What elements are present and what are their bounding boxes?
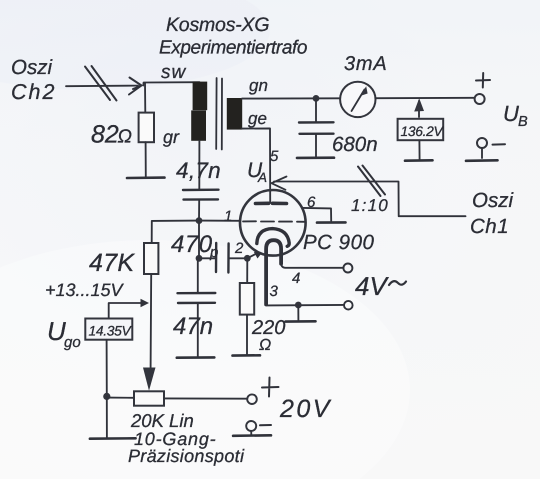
transformer primary winding bbox=[193, 82, 208, 111]
ground under 47n bbox=[177, 356, 215, 359]
svg-text:680n: 680n bbox=[332, 133, 378, 156]
potentiometer 20k bbox=[134, 391, 164, 405]
junction node heater ground bbox=[295, 302, 302, 309]
svg-text:47n: 47n bbox=[173, 313, 213, 340]
wire grid pin1 bbox=[199, 220, 240, 222]
voltmeter box 136.2V bbox=[398, 119, 444, 140]
wire junction to ground bbox=[106, 396, 108, 438]
ground under 680n bbox=[297, 156, 334, 159]
svg-text:gn: gn bbox=[249, 76, 268, 95]
probe slash Ch2 bbox=[85, 66, 117, 101]
ground under 220 bbox=[233, 354, 261, 357]
ground heater bbox=[286, 320, 316, 323]
svg-text:2: 2 bbox=[234, 240, 244, 257]
wire pin3 to terminal bbox=[267, 304, 344, 307]
svg-text:220: 220 bbox=[251, 317, 285, 339]
capacitor 680n bbox=[315, 98, 317, 122]
ground under 136.2V bbox=[405, 159, 433, 162]
wire ge tap to anode lead bbox=[242, 128, 270, 203]
junction node at 680n bbox=[313, 95, 320, 102]
svg-text:Experimentiertrafo: Experimentiertrafo bbox=[159, 38, 307, 59]
svg-text:PC 900: PC 900 bbox=[303, 231, 374, 254]
svg-text:B: B bbox=[518, 114, 528, 130]
wire Ch2 probe lead bbox=[66, 85, 138, 88]
tube grid dashes bbox=[243, 220, 306, 223]
svg-text:Oszi: Oszi bbox=[472, 189, 514, 212]
tube anode bar bbox=[256, 202, 287, 206]
wire grid junction to 47k bbox=[152, 221, 199, 243]
ground under -20V bbox=[233, 434, 271, 437]
probe slash 1:10 bbox=[358, 166, 385, 197]
svg-text:p: p bbox=[209, 244, 218, 261]
svg-text:6: 6 bbox=[307, 194, 316, 211]
svg-text:4,7n: 4,7n bbox=[176, 158, 221, 183]
wire pin6 to ground bbox=[304, 208, 332, 221]
wire 82ohm to ground bbox=[145, 142, 147, 178]
terminal -20V bbox=[246, 421, 256, 431]
svg-text:136.2V: 136.2V bbox=[401, 124, 445, 139]
svg-text:20K Lin: 20K Lin bbox=[130, 410, 194, 431]
voltmeter arrow 136.2V bbox=[418, 101, 420, 117]
svg-text:5: 5 bbox=[270, 148, 279, 165]
svg-text:Ch2: Ch2 bbox=[11, 80, 56, 104]
capacitor 470p bbox=[196, 255, 203, 262]
svg-text:ge: ge bbox=[248, 109, 267, 128]
arrow to pin2 bbox=[247, 253, 257, 258]
wire sw node down to 82 ohm bbox=[144, 83, 146, 113]
terminal +20V bbox=[247, 394, 257, 404]
svg-text:U: U bbox=[503, 101, 519, 126]
svg-text:3: 3 bbox=[270, 283, 279, 300]
svg-text:Ω: Ω bbox=[259, 337, 271, 354]
wire meter to + terminal bbox=[376, 97, 475, 99]
ground pin6 bbox=[317, 221, 346, 224]
tube PC900 envelope bbox=[240, 190, 306, 256]
wire anode probe to Ch1 bbox=[274, 182, 466, 217]
terminal + UB bbox=[475, 94, 485, 104]
svg-text:20V: 20V bbox=[279, 395, 332, 423]
junction node pot bbox=[103, 393, 110, 400]
svg-text:Ω: Ω bbox=[118, 127, 132, 148]
transformer secondary winding bbox=[227, 98, 242, 130]
pot wiper arrow bbox=[143, 368, 156, 391]
wire secondary top to meter bbox=[242, 97, 340, 99]
voltmeter box 14.35V bbox=[85, 319, 132, 340]
junction node grid bbox=[196, 217, 203, 224]
svg-text:82: 82 bbox=[91, 121, 119, 149]
resistor 220 ohm bbox=[246, 258, 248, 283]
svg-text:+13...15V: +13...15V bbox=[45, 280, 125, 300]
svg-text:go: go bbox=[64, 334, 81, 351]
arrowhead Ch2 probe bbox=[129, 78, 142, 95]
ground under Ugo junction bbox=[90, 437, 136, 440]
svg-text:1: 1 bbox=[224, 208, 232, 225]
wire Ugo to 47k line with arrow bbox=[109, 303, 141, 319]
wire sw node to transformer bbox=[143, 82, 199, 85]
svg-text:Kosmos-XG: Kosmos-XG bbox=[166, 14, 269, 36]
svg-text:14.35V: 14.35V bbox=[89, 324, 133, 339]
terminal 4V lower bbox=[344, 301, 353, 310]
ground under -UB bbox=[466, 159, 498, 162]
wire box down to pot junction bbox=[106, 340, 108, 397]
svg-text:47K: 47K bbox=[89, 249, 135, 277]
wire pot to +20V terminal bbox=[164, 397, 247, 399]
svg-text:4: 4 bbox=[292, 270, 300, 287]
wire junction to pot bbox=[107, 397, 134, 399]
wire cathode pin4 to terminal bbox=[281, 263, 343, 268]
capacitor 47n bbox=[197, 258, 199, 293]
terminal - UB bbox=[477, 138, 487, 148]
ground under 82ohm bbox=[127, 176, 165, 179]
wire 47k down to pot wiper bbox=[150, 274, 153, 368]
wire box to ground bbox=[418, 140, 420, 160]
resistor 82ohm bbox=[139, 113, 154, 143]
svg-text:3mA: 3mA bbox=[344, 53, 388, 75]
svg-text:A: A bbox=[257, 170, 267, 185]
svg-text:Ch1: Ch1 bbox=[470, 215, 509, 238]
terminal 4V upper bbox=[343, 264, 352, 273]
svg-text:sw: sw bbox=[161, 62, 187, 83]
transformer core bbox=[216, 78, 222, 150]
svg-text:Oszi: Oszi bbox=[11, 56, 53, 79]
svg-text:4V: 4V bbox=[355, 271, 389, 301]
svg-text:Präzisionspoti: Präzisionspoti bbox=[128, 446, 245, 466]
svg-text:1:10: 1:10 bbox=[351, 196, 389, 215]
resistor 47k bbox=[144, 243, 158, 274]
probe arrow at anode bbox=[272, 177, 287, 190]
svg-text:470: 470 bbox=[171, 231, 213, 258]
tube cathode sleeve bbox=[266, 240, 281, 304]
ammeter M1 bbox=[340, 82, 375, 117]
capacitor 4,7n bbox=[198, 141, 200, 190]
junction node pin2 bbox=[244, 255, 251, 262]
svg-text:gr: gr bbox=[163, 127, 180, 147]
